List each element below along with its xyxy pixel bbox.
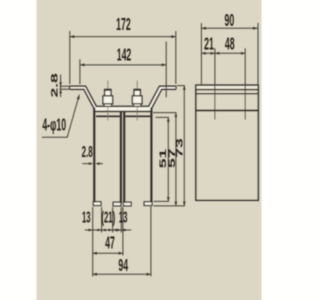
- foot mid B: [123, 202, 131, 206]
- label 4-phi10: [42, 114, 66, 134]
- foot mid A: [113, 202, 121, 206]
- label 2.8 wall: [82, 143, 93, 161]
- beige scan area: [37, 0, 262, 300]
- foot left: [93, 202, 101, 206]
- dim 94 line: [93, 273, 151, 275]
- svg-text:73: 73: [174, 138, 184, 158]
- dim 73 line: [183, 86, 185, 206]
- ext stubs 2.8 flange: [60, 86, 70, 89]
- 57 arrows: [175, 113, 178, 117]
- dim 57 line: [175, 113, 177, 206]
- dim 142 line: [80, 64, 166, 66]
- label 13 right: [119, 208, 128, 226]
- label 73 (rotated): [174, 138, 184, 158]
- svg-text:13: 13: [82, 208, 91, 226]
- side line 2: [196, 89, 258, 91]
- arrowheads right view: [201, 27, 257, 55]
- bolt 2 centerline: [136, 81, 138, 121]
- flange top line: [70, 86, 176, 106]
- label (21): [101, 208, 115, 226]
- svg-text:21: 21: [204, 33, 214, 53]
- bottom ext lines under feet: [93, 207, 122, 277]
- ext 90: [201, 23, 258, 84]
- label 94: [118, 255, 128, 275]
- dim 2.8 flange vertical line: [60, 75, 62, 98]
- flange bottom line: [70, 89, 176, 111]
- flange end caps: [70, 86, 176, 89]
- svg-text:2.8: 2.8: [49, 73, 59, 98]
- label 57 (rotated): [167, 148, 177, 168]
- slot edge line: [96, 115, 150, 117]
- side rect: [196, 85, 258, 200]
- label 47: [105, 232, 115, 252]
- svg-text:94: 94: [118, 255, 128, 275]
- 73 arrows: [183, 86, 186, 90]
- dim 21/48 line: [201, 52, 245, 54]
- svg-text:4-φ10: 4-φ10: [42, 114, 66, 134]
- 4-phi10 underline and leader: [42, 95, 79, 138]
- svg-text:2.8: 2.8: [82, 143, 93, 161]
- 2.8 flange arrows: [59, 82, 62, 86]
- ext for 47 right: [122, 207, 124, 256]
- svg-text:13: 13: [119, 208, 128, 226]
- dim 51 line: [167, 117, 169, 201]
- label 172: [116, 14, 131, 34]
- left wall: [93, 108, 95, 203]
- middle wall B: [123, 111, 125, 203]
- side line 4: [196, 110, 258, 112]
- label 21: [204, 33, 214, 53]
- 172 arrows: [70, 35, 75, 38]
- label 142: [117, 44, 132, 64]
- svg-text:142: 142: [117, 44, 132, 64]
- label 13 left: [82, 208, 91, 226]
- 51 arrows: [167, 117, 170, 121]
- ext line 94 right: [150, 206, 152, 276]
- ext 21/48: [215, 48, 245, 119]
- ext slot edge to 51: [156, 116, 169, 118]
- 94 arrows: [93, 273, 97, 276]
- svg-text:(21): (21): [101, 208, 115, 226]
- bolt 1 centerline: [107, 81, 109, 121]
- dim 2.8 wall tails: [82, 163, 103, 165]
- dim 172 line: [70, 36, 176, 38]
- label 48: [225, 33, 235, 53]
- ext lines 142: [80, 42, 166, 98]
- 142 arrows: [80, 63, 85, 66]
- label 2.8 flange (rotated): [49, 73, 59, 98]
- svg-text:48: 48: [225, 33, 235, 53]
- svg-text:90: 90: [225, 10, 235, 30]
- svg-text:47: 47: [105, 232, 115, 252]
- 47 arrows: [93, 252, 97, 255]
- 2.8 wall arrows: [89, 162, 93, 165]
- bottom 13/(21)/13 arrows: [89, 229, 93, 232]
- 21 arrows: [201, 52, 205, 55]
- bolt 2: [132, 90, 142, 107]
- dim line 13/(21)/13: [85, 229, 131, 231]
- ext feet top to 51/57: [154, 200, 170, 202]
- side line 3: [196, 93, 258, 95]
- 48 arrows: [215, 52, 219, 55]
- ext lines 172: [70, 31, 176, 84]
- foot right: [144, 202, 152, 206]
- svg-text:172: 172: [116, 14, 131, 34]
- top band light: [197, 86, 258, 89]
- ext feet bottom to 73: [154, 205, 185, 207]
- dim 47 line: [93, 252, 123, 254]
- label 90: [225, 10, 235, 30]
- bolt 1: [103, 90, 113, 107]
- ext flange top to 73: [177, 85, 185, 87]
- middle wall A: [120, 111, 122, 203]
- 90 arrows: [201, 27, 206, 30]
- right wall: [150, 108, 152, 203]
- ext plate bottom to 57: [153, 112, 176, 114]
- dim 90 line: [201, 27, 257, 29]
- arrowheads left view: [59, 35, 186, 276]
- profile flange fill: [70, 86, 176, 111]
- label 51 (rotated): [158, 148, 168, 168]
- dims right view: [201, 23, 258, 120]
- 4-phi10 leader arrow: [77, 95, 80, 100]
